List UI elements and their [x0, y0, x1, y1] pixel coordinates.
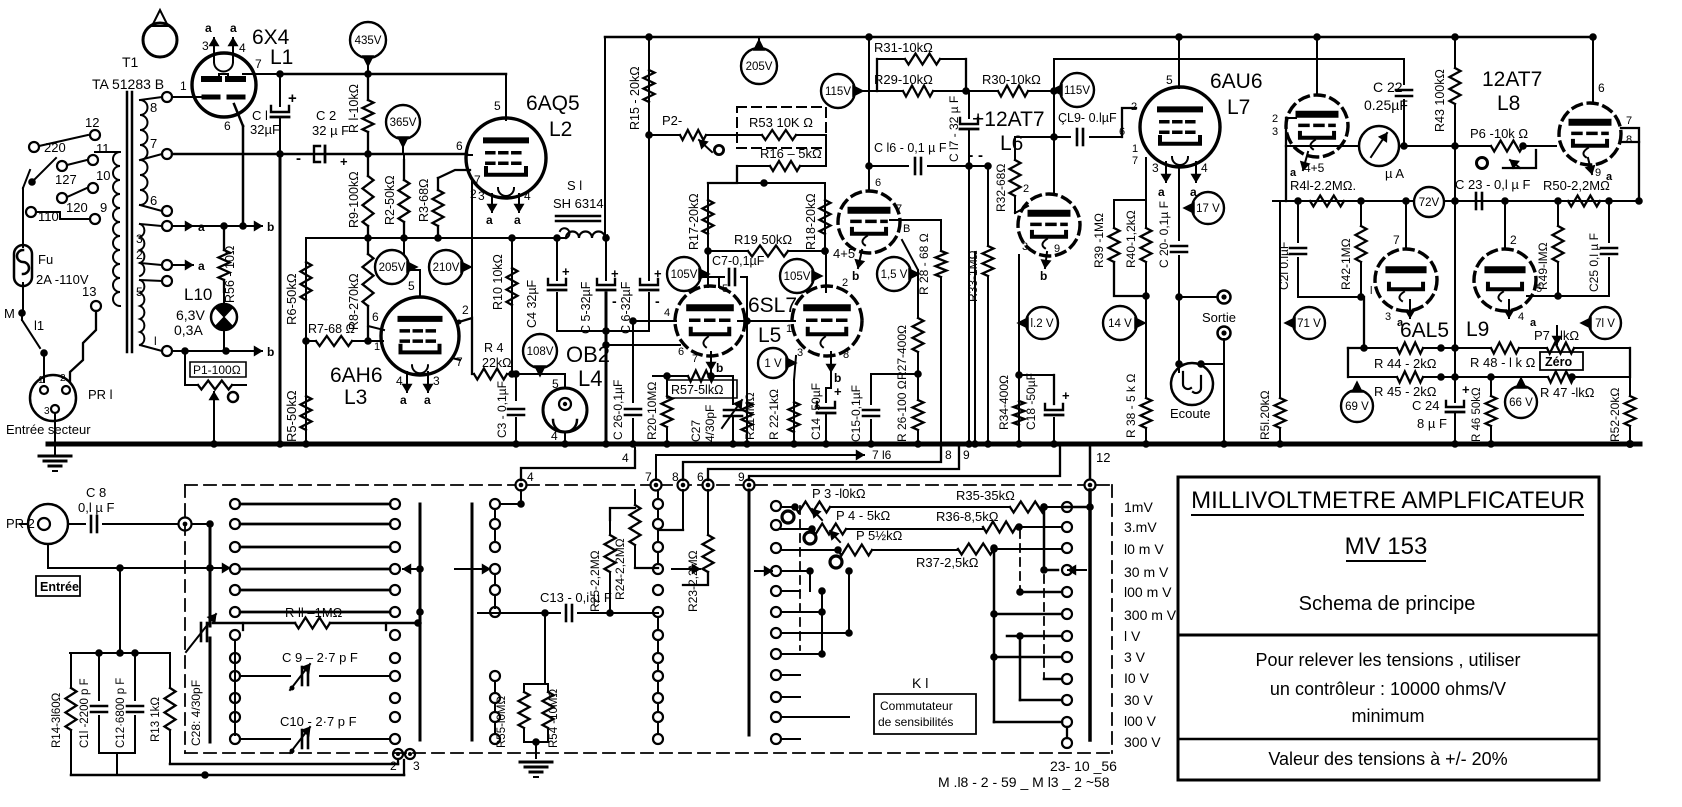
svg-text:C4 32µF: C4 32µF: [525, 279, 539, 328]
svg-text:B: B: [903, 223, 910, 235]
svg-text:R 38 - 5 k Ω: R 38 - 5 k Ω: [1124, 374, 1138, 438]
voltage 205V top: [741, 48, 777, 84]
svg-text:1: 1: [1132, 143, 1138, 155]
svg-text:12: 12: [85, 115, 99, 130]
svg-text:l: l: [1370, 285, 1372, 297]
svg-text:C 22: C 22: [1373, 79, 1403, 95]
resistor R14-3160ohm: [70, 653, 72, 688]
P2 knob: [714, 145, 723, 154]
svg-text:R55-l0MΩ: R55-l0MΩ: [496, 696, 508, 748]
terminal 127: [57, 161, 67, 171]
svg-text:C28: 4/30pF: C28: 4/30pF: [189, 680, 203, 746]
svg-text:SH 6314: SH 6314: [553, 196, 604, 211]
svg-text:l: l: [154, 334, 157, 348]
resistor R49-1M: [1557, 201, 1559, 226]
svg-text:R 48 - l k Ω: R 48 - l k Ω: [1470, 355, 1536, 370]
svg-text:Commutateur: Commutateur: [880, 699, 953, 713]
P2 wiper: [699, 140, 712, 152]
svg-text:R5l.20kΩ: R5l.20kΩ: [1258, 390, 1272, 440]
L8b pin6 wire: [1592, 37, 1594, 103]
svg-text:Sortie: Sortie: [1202, 310, 1236, 325]
svg-text:Schema de principe: Schema de principe: [1299, 593, 1476, 615]
svg-text:7: 7: [456, 355, 463, 369]
svg-text:115V: 115V: [1064, 85, 1090, 97]
pin 3 arrow: [213, 38, 215, 55]
svg-text:3: 3: [1152, 161, 1159, 175]
wire 13 to PR1 pin2: [70, 311, 96, 382]
svg-text:3 V: 3 V: [1124, 649, 1146, 665]
terminal 12: [90, 130, 100, 140]
resistor R25-2.2M: [609, 520, 611, 535]
svg-text:205V: 205V: [746, 61, 773, 73]
resistor R21-1M: [746, 321, 748, 444]
svg-text:115V: 115V: [825, 86, 851, 98]
capacitor C15-0.1uF: [870, 380, 872, 404]
wafer1 common rail: [206, 564, 214, 572]
svg-text:P7: P7: [1534, 328, 1550, 343]
P6 wiper: [1503, 150, 1536, 168]
capacitor C26-0.1uF: [632, 321, 634, 402]
svg-text:R17-20kΩ: R17-20kΩ: [687, 193, 701, 250]
svg-text:69 V: 69 V: [1345, 401, 1369, 413]
voltage 105V first: [667, 257, 701, 291]
voltage 108V: [523, 334, 557, 368]
resistor R10 10k: [511, 238, 513, 374]
svg-text:L1: L1: [270, 46, 293, 69]
svg-text:C12·6800 p F: C12·6800 p F: [115, 678, 127, 748]
resistor R2-50k: [403, 160, 405, 180]
voltage 1.2V: [1026, 307, 1058, 339]
svg-text:C l7 - 32 µ F: C l7 - 32 µ F: [947, 96, 961, 162]
voltage 1V: [758, 348, 788, 378]
svg-text:5: 5: [722, 283, 728, 295]
diode tube L9: [1474, 249, 1536, 311]
L6a grid pin7 wire: [890, 219, 941, 221]
svg-text:7: 7: [692, 353, 698, 365]
resistor R27-400: [917, 270, 919, 318]
svg-text:b: b: [834, 371, 841, 385]
svg-text:C 9 – 2·7 p F: C 9 – 2·7 p F: [282, 650, 358, 665]
svg-text:R49-lMΩ: R49-lMΩ: [1536, 242, 1550, 290]
svg-text:+: +: [340, 154, 348, 169]
terminal 9 wire down: [748, 490, 751, 735]
terminal 7 top: [651, 480, 662, 491]
svg-text:R23-2,2MΩ: R23-2,2MΩ: [686, 550, 700, 612]
svg-text:P 4 - 5kΩ: P 4 - 5kΩ: [836, 508, 891, 523]
svg-text:C 8: C 8: [86, 485, 106, 500]
junction to C13: [494, 595, 496, 608]
L6b cathode arrow: [1045, 252, 1047, 268]
svg-text:R18-20kΩ: R18-20kΩ: [804, 193, 818, 250]
terminal 120: [57, 193, 67, 203]
svg-text:L9: L9: [1466, 318, 1489, 341]
svg-text:5: 5: [1166, 73, 1173, 87]
svg-text:C l: C l: [252, 108, 268, 123]
resistor R11-1M: [213, 622, 295, 625]
wafer3 mid verticals: [821, 591, 823, 654]
voltage 1.5V: [877, 257, 911, 291]
voltage 66V: [1505, 386, 1537, 418]
wire L5b cathode join: [830, 372, 832, 388]
svg-text:8: 8: [843, 349, 849, 361]
svg-text:8: 8: [672, 470, 679, 484]
svg-text:R42-1MΩ: R42-1MΩ: [1339, 238, 1353, 290]
wire to PR1 pin1: [43, 353, 45, 382]
transformer T1 core: [126, 92, 129, 352]
svg-text:1 V: 1 V: [764, 358, 782, 370]
svg-text:11: 11: [96, 141, 110, 156]
triode 12AT7 L8b: [1559, 103, 1621, 165]
L9 pin2 wire: [1504, 201, 1506, 249]
svg-text:MV 153: MV 153: [1345, 533, 1428, 560]
resistor R7-68: [306, 340, 316, 342]
svg-text:R14-3l60Ω: R14-3l60Ω: [51, 692, 63, 748]
resistor R24-2.2M: [634, 490, 636, 505]
svg-text:L5: L5: [758, 324, 781, 347]
svg-text:R 26-100 Ω: R 26-100 Ω: [895, 380, 909, 442]
svg-text:9: 9: [1054, 243, 1060, 255]
svg-text:a: a: [514, 213, 521, 227]
secondary terminal 1: [162, 346, 172, 356]
svg-text:l1: l1: [34, 318, 44, 333]
wafer3 right contacts: [1062, 502, 1072, 512]
line 345 to 6SL7 cathode: [606, 344, 680, 346]
svg-text:R 4: R 4: [484, 341, 504, 355]
diode tube 6AL5: [1375, 249, 1437, 311]
svg-text:L4: L4: [578, 366, 602, 391]
row4 arrows: [403, 568, 418, 570]
terminal 9 top: [744, 480, 755, 491]
svg-text:l00 m V: l00 m V: [1124, 584, 1172, 600]
svg-text:6: 6: [224, 119, 231, 133]
resistor R42-1M: [1360, 201, 1362, 226]
svg-text:2: 2: [1131, 101, 1137, 113]
capacitor C9-2.7pF: [240, 675, 290, 677]
svg-text:+: +: [654, 266, 662, 281]
L5a cathode b arrow: [710, 352, 712, 370]
svg-text:b: b: [852, 269, 859, 283]
HT top rail: [605, 36, 1593, 39]
transformer secondary winding top: [140, 100, 148, 205]
svg-text:4: 4: [1518, 311, 1524, 323]
svg-text:2: 2: [1272, 113, 1278, 125]
voltage 365V: [386, 105, 420, 139]
svg-text:a: a: [1158, 185, 1165, 199]
svg-text:C18 -50µF: C18 -50µF: [1024, 373, 1038, 430]
resistor R15-20k: [648, 37, 650, 135]
svg-text:3.mV: 3.mV: [1124, 519, 1157, 535]
svg-text:R56 - 10Ω: R56 - 10Ω: [223, 246, 237, 303]
wire b lower: [172, 350, 258, 352]
voltage 105V second: [780, 259, 814, 293]
svg-text:3: 3: [1385, 311, 1391, 323]
voltage 115V left: [821, 74, 855, 108]
resistor R51-20k: [1279, 201, 1281, 398]
stub 100V: [994, 721, 1062, 724]
svg-text:9: 9: [100, 200, 107, 215]
terminal 110: [26, 207, 36, 217]
svg-text:6AH6: 6AH6: [330, 364, 383, 387]
transformer primary winding: [113, 152, 120, 306]
wafer1 left column wire: [234, 640, 236, 735]
wafer3 inner dashed: [799, 506, 801, 650]
svg-text:4+5: 4+5: [833, 246, 855, 261]
svg-text:30 m V: 30 m V: [1124, 564, 1169, 580]
svg-text:4: 4: [396, 374, 403, 388]
trimmer C28 4/30pF: [209, 524, 212, 626]
svg-text:108V: 108V: [527, 346, 554, 358]
lamp L10: [211, 304, 237, 330]
resistor R5-50k: [305, 341, 307, 444]
L8a grid frame: [1285, 118, 1287, 146]
pin 1 wire: [172, 96, 204, 98]
L5a pin4 wire: [633, 320, 676, 322]
connector PR1: [30, 375, 76, 421]
label Entree box: [36, 576, 80, 596]
capacitor C10-2.7pF: [240, 738, 290, 740]
svg-text:C 2: C 2: [316, 108, 336, 123]
line left y297: [1298, 296, 1364, 298]
svg-text:6: 6: [456, 139, 463, 153]
potentiometer P1-100ohm: [190, 362, 246, 377]
resistor R6-50k: [305, 238, 307, 341]
voltage 115V right: [1060, 73, 1094, 107]
resistor R19 50k: [708, 250, 748, 252]
selector switch lever: [32, 158, 56, 182]
svg-text:C10 - 2·7 p F: C10 - 2·7 p F: [280, 714, 357, 729]
row6 link: [416, 608, 424, 616]
svg-text:Entrée: Entrée: [40, 580, 79, 594]
svg-text:1: 1: [374, 341, 380, 353]
mV ladder vertical x1044: [1043, 507, 1046, 570]
svg-text:5: 5: [408, 279, 415, 293]
svg-text:4: 4: [551, 429, 558, 443]
ground wafer2: [524, 741, 548, 743]
svg-text:R31-10kΩ: R31-10kΩ: [874, 40, 933, 55]
svg-text:3: 3: [478, 189, 485, 203]
arrow a1: [172, 225, 193, 227]
svg-text:R54 -10MΩ: R54 -10MΩ: [548, 689, 560, 748]
svg-text:Fu: Fu: [38, 252, 53, 267]
heavy B+ vertical: [279, 154, 282, 444]
svg-text:1: 1: [38, 375, 44, 386]
svg-text:R57-5lkΩ: R57-5lkΩ: [671, 383, 723, 397]
svg-text:435V: 435V: [355, 35, 382, 47]
secondary terminal 6: [162, 206, 172, 216]
svg-text:Valeur des tensions à +/- 20%: Valeur des tensions à +/- 20%: [1268, 749, 1507, 769]
resistor R33-1M: [987, 166, 989, 246]
capacitor C14-50uF electrolytic: [825, 388, 827, 402]
resistor R3-68: [437, 178, 439, 190]
svg-text:L2: L2: [549, 118, 572, 141]
svg-text:P 5½kΩ: P 5½kΩ: [856, 528, 903, 543]
resistor R55-10M: [519, 692, 530, 728]
svg-text:105V: 105V: [671, 269, 698, 281]
6AL5 pin7 wire: [1405, 201, 1407, 249]
vertical HT to detector x1455: [1454, 201, 1456, 348]
svg-text:7 l6: 7 l6: [872, 448, 892, 462]
wire 1mV to 12: [1067, 506, 1090, 508]
arrow a2: [172, 264, 193, 266]
capacitor C18-50uF: [1053, 375, 1055, 404]
svg-text:C25 0,l µ F: C25 0,l µ F: [1587, 233, 1601, 292]
svg-text:2: 2: [462, 303, 469, 317]
wafer2 row wires: [500, 503, 520, 505]
capacitor C11-2200pF: [98, 653, 100, 700]
L2 pin6 wire: [467, 154, 472, 156]
svg-text:a: a: [400, 393, 407, 407]
wafer1 contacts: [230, 499, 240, 509]
wire from 4 terminal: [516, 480, 527, 491]
arrow b lower: [244, 350, 262, 352]
svg-text:M: M: [4, 306, 15, 321]
svg-text:3: 3: [136, 232, 143, 246]
secondary terminal a1: [162, 221, 172, 231]
svg-text:7: 7: [255, 57, 262, 71]
svg-text:C 24: C 24: [1412, 398, 1439, 413]
svg-text:R21-lMΩ: R21-lMΩ: [743, 392, 757, 440]
svg-text:R2-50kΩ: R2-50kΩ: [383, 175, 397, 225]
svg-text:C 23 - 0,l µ F: C 23 - 0,l µ F: [1455, 177, 1530, 192]
svg-text:R30-10kΩ: R30-10kΩ: [982, 72, 1041, 87]
svg-text:l.2 V: l.2 V: [1030, 318, 1053, 330]
wafer2 left bottom chain: [494, 681, 496, 693]
resistor R17-20k: [707, 183, 709, 251]
svg-text:a: a: [230, 21, 237, 35]
svg-text:lkΩ: lkΩ: [1560, 328, 1579, 343]
svg-text:R 44 - 2kΩ: R 44 - 2kΩ: [1374, 356, 1437, 371]
svg-text:b: b: [267, 220, 274, 234]
wire L5a cathode to R57: [710, 370, 712, 376]
svg-text:R ll –1MΩ: R ll –1MΩ: [285, 605, 343, 620]
L5b cathode b arrow: [830, 352, 832, 372]
svg-text:b: b: [716, 361, 723, 375]
svg-text:10: 10: [96, 168, 110, 183]
tube 6SL7 L5 triode A: [675, 286, 745, 356]
svg-text:3: 3: [1272, 126, 1278, 138]
svg-text:8: 8: [945, 448, 952, 462]
svg-text:un contrôleur : 10000 ohms/V: un contrôleur : 10000 ohms/V: [1270, 679, 1506, 699]
mV ladder vertical x1020: [1019, 636, 1022, 700]
svg-text:b: b: [267, 345, 274, 359]
svg-text:7: 7: [1393, 233, 1400, 247]
terminal 220: [29, 142, 39, 152]
dashed selector box: [185, 484, 1112, 486]
voltage 435V: [350, 22, 386, 58]
svg-text:C 6-32µF: C 6-32µF: [619, 281, 633, 334]
svg-text:+: +: [1462, 382, 1470, 397]
svg-text:3: 3: [797, 347, 803, 359]
terminal 11: [88, 155, 98, 165]
svg-text:3: 3: [413, 759, 420, 773]
svg-text:5: 5: [552, 377, 559, 391]
svg-text:2: 2: [1510, 233, 1517, 247]
terminal 6 top: [703, 480, 714, 491]
svg-text:R24-2,2MΩ: R24-2,2MΩ: [613, 538, 627, 600]
capacitor C5-32uF: [605, 238, 607, 280]
svg-text:-: -: [978, 147, 983, 164]
resistor R13 1k: [169, 653, 171, 688]
svg-text:R37-2,5kΩ: R37-2,5kΩ: [916, 555, 979, 570]
svg-text:MILLIVOLTMETRE AMPLFICATEUR: MILLIVOLTMETRE AMPLFICATEUR: [1191, 487, 1585, 514]
voltage 205V: [375, 250, 409, 284]
wafer1 lower contacts: [230, 630, 240, 640]
svg-text:Entrée secteur: Entrée secteur: [6, 422, 91, 437]
feeder wire 8: [683, 444, 941, 480]
mV ladder dashed verticals: [1043, 575, 1045, 679]
svg-text:6AQ5: 6AQ5: [526, 92, 580, 115]
mains selector wires: [39, 135, 88, 146]
svg-text:1: 1: [180, 79, 187, 93]
voltage 69V: [1341, 390, 1373, 422]
wafer1 right verticals: [419, 504, 422, 740]
svg-text:OB2: OB2: [566, 342, 610, 367]
tube 6AU6 L7: [1140, 87, 1220, 167]
svg-text:R43 100kΩ: R43 100kΩ: [1433, 69, 1447, 132]
svg-text:365V: 365V: [390, 117, 417, 129]
ecoute jack: [1171, 363, 1213, 405]
svg-text:-: -: [296, 150, 301, 167]
L2 pin7 wire: [438, 170, 470, 178]
resistor R53 10K dashed box: [737, 107, 826, 148]
svg-text:7: 7: [1626, 115, 1632, 127]
svg-text:R10 10kΩ: R10 10kΩ: [491, 254, 505, 310]
svg-text:4: 4: [664, 307, 670, 319]
svg-text:30 V: 30 V: [1124, 692, 1153, 708]
pin 6 wire: [234, 104, 243, 126]
fuse Fu 2A-110V: [14, 245, 32, 286]
svg-text:2: 2: [842, 277, 848, 289]
svg-text:µ A: µ A: [1385, 166, 1404, 181]
svg-text:3: 3: [1022, 241, 1028, 253]
svg-text:7l V: 7l V: [1595, 318, 1615, 330]
arrow b upper: [244, 225, 262, 227]
PR2 ground wire: [47, 544, 49, 568]
mV ladder vertical x994: [993, 549, 996, 722]
triode 12AT7 L6a: [838, 191, 900, 253]
svg-text:4: 4: [1201, 161, 1208, 175]
svg-text:R36-8,5kΩ: R36-8,5kΩ: [936, 509, 999, 524]
svg-text:a: a: [198, 259, 205, 273]
resistor R9-100k: [367, 154, 369, 176]
svg-text:R6-50kΩ: R6-50kΩ: [284, 273, 299, 325]
trimmer C27 4/30pF: [732, 376, 734, 404]
P5 knob: [830, 556, 842, 568]
resistor R22-1k: [794, 356, 796, 380]
terminal 10: [88, 183, 98, 193]
grid line L5a to L5b: [738, 320, 795, 322]
L3 pin6 wire: [368, 326, 384, 330]
svg-text:5: 5: [494, 99, 501, 113]
svg-text:R34-400Ω: R34-400Ω: [997, 375, 1011, 430]
resistor R8-270k: [367, 238, 369, 254]
terminal 8 top: [678, 480, 689, 491]
svg-text:R16 – 5kΩ: R16 – 5kΩ: [760, 146, 822, 161]
svg-text:a: a: [486, 213, 493, 227]
capacitor C25 0.1uF: [1608, 201, 1610, 242]
svg-text:L7: L7: [1227, 96, 1250, 119]
resistor R26-100: [917, 374, 919, 400]
terminal 9: [90, 214, 100, 224]
capacitor C6-32uF: [648, 135, 650, 280]
stub 30V: [1020, 699, 1062, 702]
svg-text:72V: 72V: [1419, 197, 1440, 209]
resistor R57-51k: [653, 375, 688, 377]
voltage 72V: [1414, 187, 1444, 217]
capacitor C24 8uF: [1454, 377, 1456, 402]
svg-text:R3-68Ω: R3-68Ω: [417, 179, 431, 222]
svg-text:210V: 210V: [433, 262, 460, 274]
